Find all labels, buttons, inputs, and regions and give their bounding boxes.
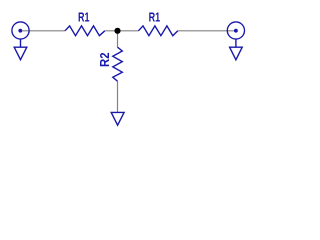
resistor R1 xyxy=(65,9,105,35)
ground xyxy=(111,112,124,125)
ground xyxy=(230,47,243,60)
resistor R2 xyxy=(97,47,122,81)
wire xyxy=(21,30,66,32)
current source I1 xyxy=(12,22,29,47)
wire xyxy=(117,81,119,112)
svg-text:R2: R2 xyxy=(97,53,112,68)
wire xyxy=(105,30,139,32)
current source I2 xyxy=(227,22,244,47)
svg-text:R1: R1 xyxy=(149,9,161,24)
svg-text:R1: R1 xyxy=(78,9,90,24)
wire xyxy=(178,30,236,32)
wire xyxy=(117,31,119,47)
resistor R1 xyxy=(138,9,177,35)
junction xyxy=(114,28,120,34)
ground xyxy=(14,47,27,60)
